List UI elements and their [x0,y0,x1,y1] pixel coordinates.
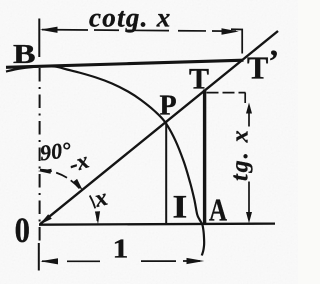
tg dimension up arrowhead [246,103,252,114]
svg-text:B: B [13,39,36,69]
cotg dimension right arrowhead [222,28,239,34]
axis OB vertical line bottom solid tick [38,243,40,271]
svg-text:1: 1 [113,233,129,264]
angle x dashed arc [90,196,98,222]
svg-text:T: T [189,63,209,96]
svg-text:0: 0 [15,211,30,251]
tg dimension vertical line upper [248,108,250,127]
angle 90-x dashed arc [40,170,80,189]
svg-text:A: A [209,193,227,229]
unity dimension right arrowhead [187,258,205,264]
angle 90-x arc right arrowhead [73,179,83,191]
angle 90-x arc left arrowhead [38,169,52,174]
diagonal ray O P T T' [40,31,278,224]
svg-text:P: P [160,91,177,122]
cotg dimension right corner tick [231,29,242,53]
unit circle arc [6,66,204,255]
cotg dimension line dashed [42,30,236,32]
axis OB vertical dash-dot line top solid tick [38,19,40,58]
tg dimension down arrowhead [246,212,252,223]
cotg dimension left arrowhead [40,27,58,33]
unity dimension line bottom segments [42,260,58,262]
svg-text:tg. x: tg. x [228,128,254,181]
axis OB vertical dash-dot line middle [39,68,41,243]
arrowhead of diagonal at origin [39,214,52,225]
tangent segment TA vertical thick line [203,90,206,225]
tg dimension top corner tick [244,93,246,103]
tangent line at B (thick horizontal B to T') [6,60,244,67]
tg dimension vertical line lower [248,182,250,215]
svg-text:I: I [173,188,188,225]
ordinate PI vertical line [165,123,167,225]
baseline OA horizontal axis [39,224,275,225]
unity dimension left arrowhead [40,258,58,264]
tg dimension top extension dashed line [207,92,246,94]
svg-text:cotg. x: cotg. x [89,2,172,32]
angle x arc bottom arrowhead [95,211,100,224]
